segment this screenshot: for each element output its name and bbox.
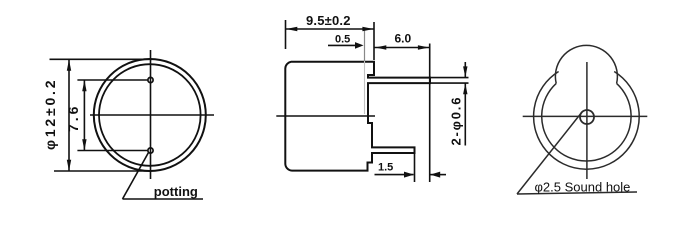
0.5 arrowhead bbox=[355, 42, 364, 49]
horizontal centerline bbox=[90, 114, 214, 116]
6.0 right arrowhead bbox=[418, 45, 429, 49]
buzzer inner circle bbox=[99, 64, 201, 166]
bottom pin extension line (7.6) bbox=[77, 150, 147, 152]
svg-text:1.5: 1.5 bbox=[378, 162, 393, 174]
buzzer outer circle φ12 bbox=[94, 59, 206, 171]
sound hole label underline bbox=[517, 192, 637, 194]
svg-text:7.6: 7.6 bbox=[65, 104, 81, 132]
φ0.6 lower tail / text underline bbox=[464, 83, 466, 145]
case seam line upper (0.5 lip) bbox=[364, 31, 366, 62]
side view centerline bbox=[276, 115, 375, 117]
upper pin tip / 1.5 shared extension line bbox=[429, 44, 431, 183]
9.5 dimension line bbox=[286, 28, 375, 30]
lower pin tip extension line bbox=[414, 153, 416, 182]
φ12 bottom arrowhead bbox=[67, 160, 71, 171]
φ0.6 lower arrowhead (up) bbox=[463, 83, 467, 94]
7.6 top arrowhead bbox=[82, 80, 86, 91]
pin bottom φ0.6 extension line bbox=[430, 82, 469, 84]
svg-text:φ12±0.2: φ12±0.2 bbox=[42, 78, 58, 150]
buzzer body outline bbox=[285, 62, 430, 171]
svg-text:6.0: 6.0 bbox=[395, 32, 412, 46]
9.5 right arrowhead bbox=[362, 27, 373, 31]
9.5 left extension line bbox=[285, 20, 287, 49]
top pin extension line (7.6) bbox=[77, 79, 147, 81]
vertical centerline bbox=[150, 50, 152, 179]
pin top φ0.6 extension line bbox=[430, 77, 469, 79]
φ0.6 upper arrowhead (down) bbox=[463, 66, 467, 77]
svg-text:2-φ0.6: 2-φ0.6 bbox=[449, 96, 464, 146]
1.5 right arrowhead bbox=[430, 172, 440, 178]
bottom extension line of φ12 dimension bbox=[54, 170, 150, 172]
back outer circle arc (hidden under dome at top) bbox=[534, 72, 640, 170]
back view horizontal centerline bbox=[523, 115, 648, 117]
back top dome arc bbox=[555, 45, 617, 83]
1.5 right arrow tail bbox=[430, 174, 446, 176]
9.5 left arrowhead bbox=[286, 27, 297, 31]
svg-text:9.5±0.2: 9.5±0.2 bbox=[306, 13, 351, 28]
bottom pin hole bbox=[148, 148, 153, 153]
7.6 bottom arrowhead bbox=[82, 139, 86, 150]
potting leader underline bbox=[123, 198, 204, 200]
1.5 left arrowhead bbox=[404, 172, 414, 178]
9.5 right extension line bbox=[373, 22, 375, 60]
top extension line of φ12 dimension bbox=[50, 58, 153, 60]
back inner circle arc bbox=[542, 83, 631, 161]
sound hole leader line bbox=[517, 112, 582, 194]
1.5 leader shelf bbox=[375, 174, 414, 176]
back view vertical centerline bbox=[586, 62, 588, 179]
φ12 top arrowhead bbox=[67, 60, 71, 71]
7.6 dimension line bbox=[83, 80, 85, 151]
top pin hole bbox=[148, 77, 153, 82]
potting leader line bbox=[123, 153, 149, 200]
sound hole circle bbox=[580, 110, 594, 124]
φ12 dimension line bbox=[68, 60, 70, 172]
6.0 dimension line bbox=[375, 47, 430, 49]
case seam line inside body bbox=[364, 61, 366, 114]
φ0.6 upper arrow tail bbox=[464, 62, 466, 77]
svg-text:φ2.5 Sound hole: φ2.5 Sound hole bbox=[535, 180, 631, 195]
6.0 left arrowhead bbox=[375, 45, 386, 49]
svg-text:potting: potting bbox=[154, 184, 198, 199]
0.5 leader shelf bbox=[328, 44, 361, 46]
svg-text:0.5: 0.5 bbox=[335, 33, 350, 45]
